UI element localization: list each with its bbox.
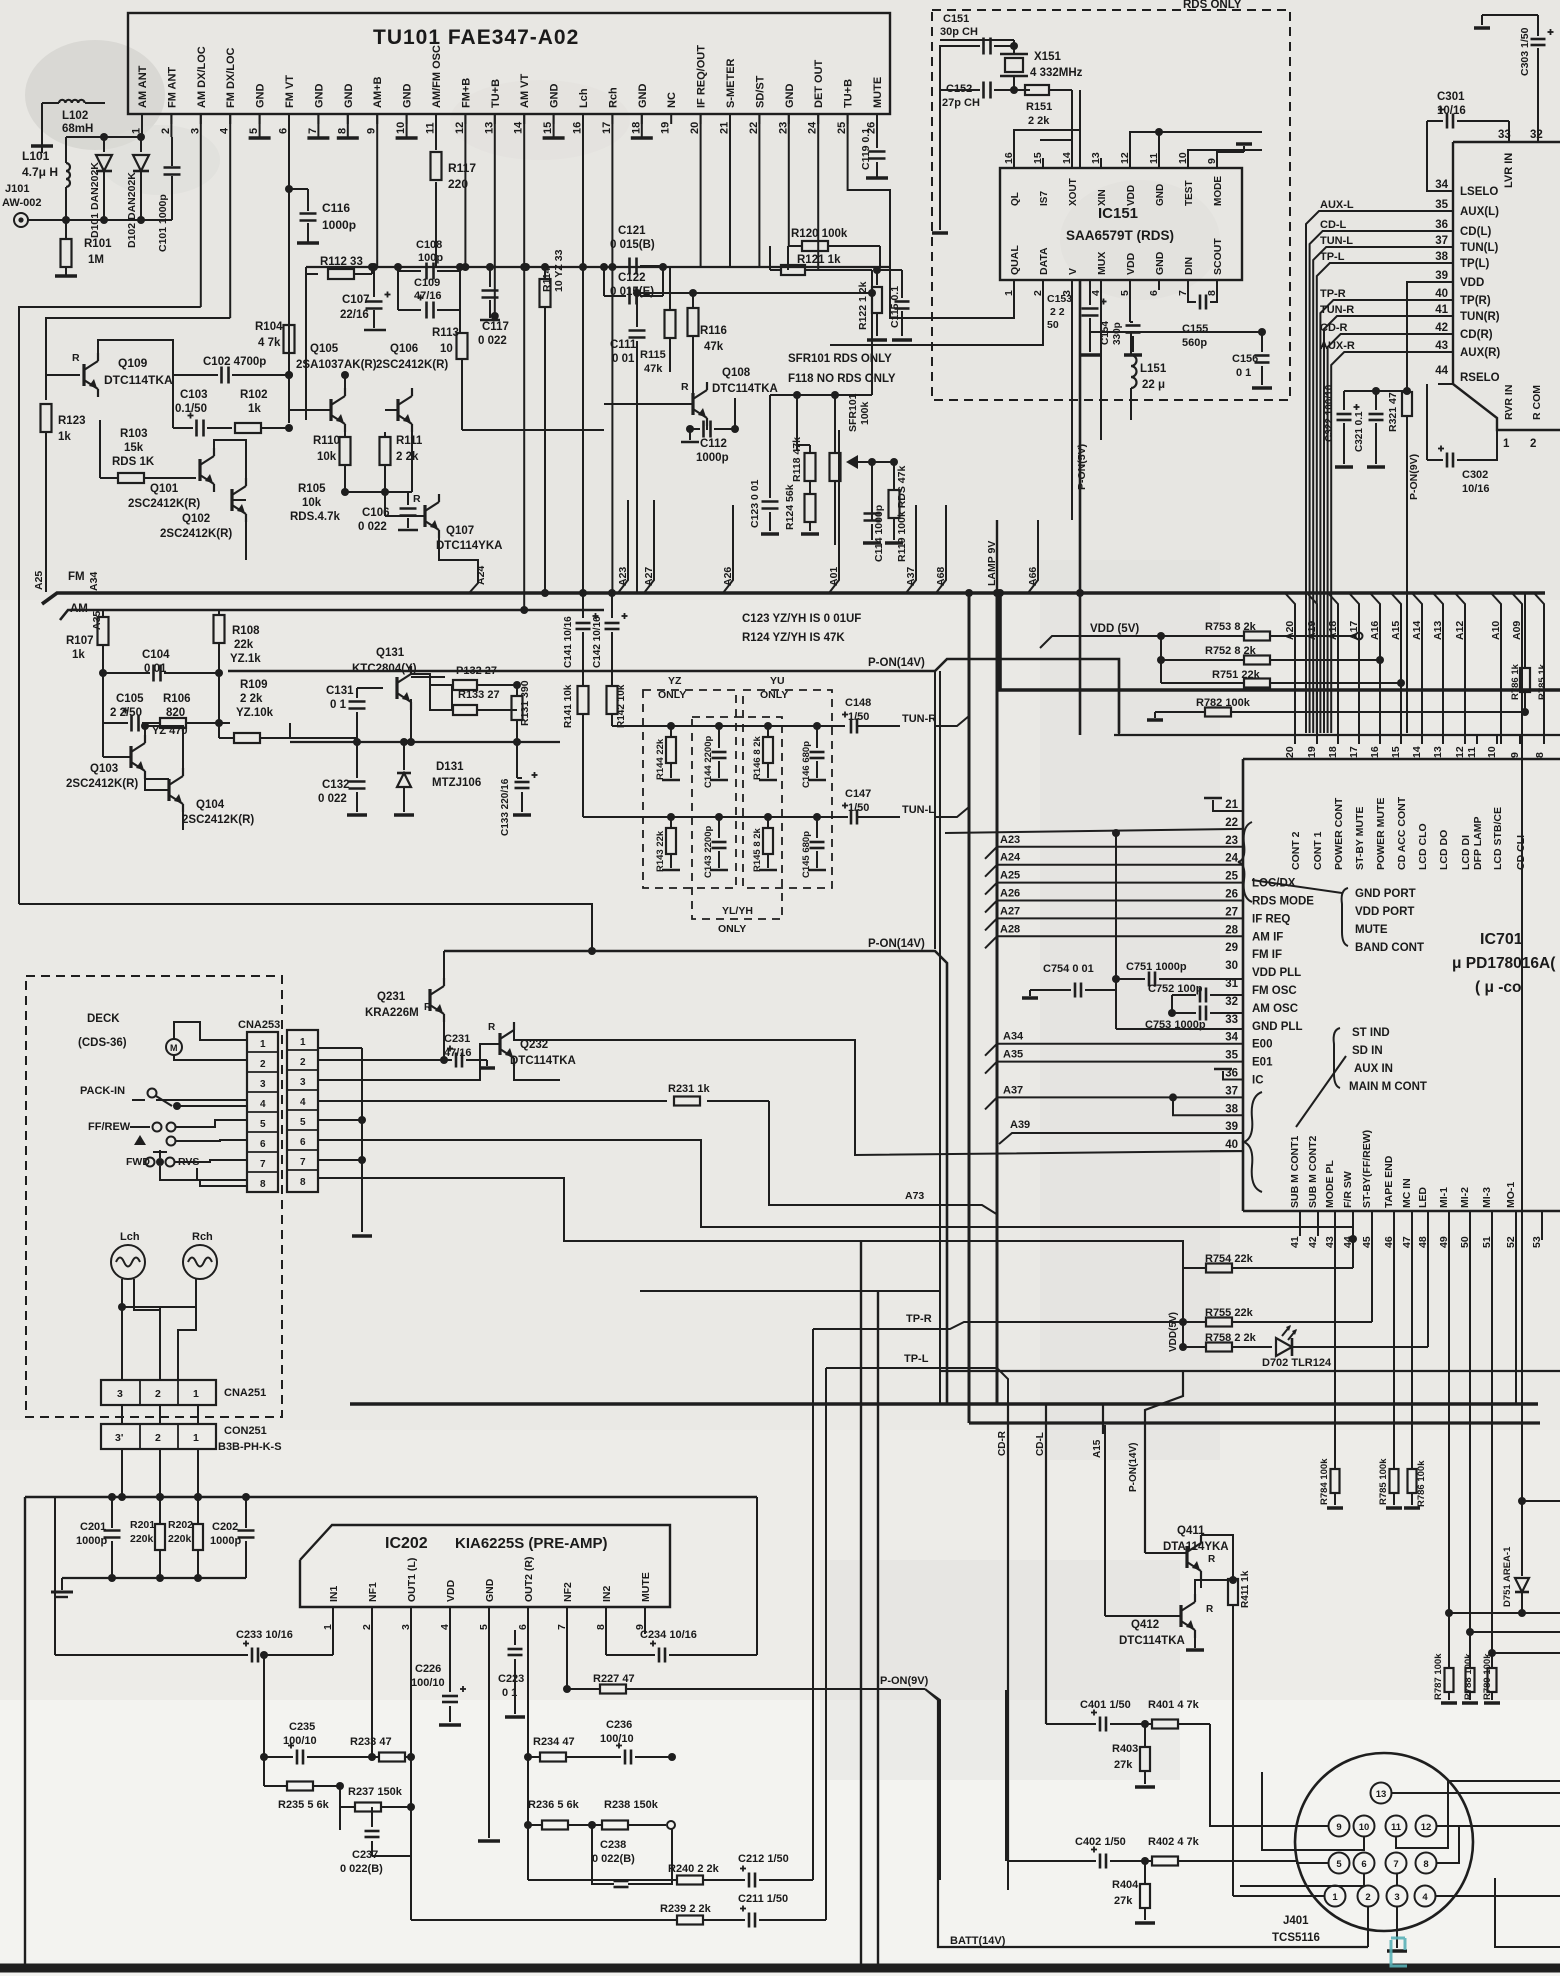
- svg-text:J401: J401: [1283, 1915, 1309, 1927]
- svg-text:DTC114TKA: DTC114TKA: [510, 1055, 576, 1067]
- capacitor C117 0.022: [489, 267, 491, 287]
- wire Q411 base: [1145, 1552, 1187, 1554]
- wire lamp join: [122, 1306, 196, 1308]
- svg-text:FM VT: FM VT: [284, 75, 296, 108]
- wire Q109 collector: [98, 340, 173, 375]
- transistor Q108 DTC114TKA: [691, 393, 694, 415]
- connector CNA251: [101, 1380, 216, 1405]
- wire RVS row: [160, 1166, 247, 1186]
- wire second vertical: [46, 318, 230, 400]
- svg-text:D102 DAN202K: D102 DAN202K: [126, 172, 138, 248]
- svg-text:C115 0.1: C115 0.1: [889, 286, 901, 328]
- wire Q231 collector: [443, 951, 445, 986]
- IC701 pin36 stub: [1223, 1071, 1243, 1080]
- svg-text:LCD CLO: LCD CLO: [1417, 823, 1429, 870]
- switch FF/REW: [130, 1126, 150, 1128]
- wire pin row horizontal: [1114, 734, 1560, 736]
- svg-text:SFR101 RDS ONLY: SFR101 RDS ONLY: [788, 353, 892, 365]
- svg-text:C301: C301: [1437, 91, 1465, 103]
- wire pin51 drop MI-3: [1491, 1228, 1493, 1653]
- svg-text:RDS.4.7k: RDS.4.7k: [290, 511, 340, 523]
- svg-text:PACK-IN: PACK-IN: [80, 1085, 125, 1097]
- svg-text:2 2k: 2 2k: [396, 451, 419, 463]
- wire pin40: [1210, 1150, 1243, 1152]
- svg-text:R: R: [1208, 1554, 1216, 1565]
- transistor Q106 2SC2412K(R): [396, 399, 399, 421]
- svg-text:Q103: Q103: [90, 763, 118, 775]
- svg-text:E01: E01: [1252, 1057, 1273, 1069]
- svg-text:R108: R108: [232, 625, 260, 637]
- svg-text:KTC2804(Y): KTC2804(Y): [352, 663, 417, 675]
- wire J401 pin2: [1367, 1907, 1369, 1948]
- wire deck row4 long: [318, 1100, 667, 1102]
- wire trunk x861: [860, 1241, 862, 1964]
- wire Q108 base: [604, 403, 693, 405]
- svg-text:C101 1000p: C101 1000p: [157, 194, 169, 252]
- svg-text:10: 10: [395, 122, 407, 134]
- svg-text:1: 1: [193, 1432, 199, 1444]
- svg-text:4 7k: 4 7k: [258, 337, 281, 349]
- svg-text:FM+B: FM+B: [460, 78, 472, 108]
- svg-text:R240 2 2k: R240 2 2k: [668, 1863, 720, 1875]
- wire Q102 emitter down: [245, 522, 247, 560]
- svg-text:12: 12: [1454, 746, 1466, 758]
- wire middle lamp pin2: [159, 1330, 161, 1380]
- svg-text:ONLY: ONLY: [718, 923, 746, 935]
- wire rail 1497: [25, 1496, 757, 1498]
- svg-text:0 1: 0 1: [1236, 367, 1251, 379]
- IC701 pin21 stub: [1213, 800, 1243, 811]
- svg-text:DTC114TKA: DTC114TKA: [712, 383, 778, 395]
- svg-text:GND: GND: [1154, 251, 1166, 275]
- svg-text:SAA6579T (RDS): SAA6579T (RDS): [1066, 228, 1174, 243]
- svg-text:(CDS-36): (CDS-36): [78, 1037, 127, 1049]
- wire pin49 drop MI-1: [1448, 1228, 1450, 1613]
- svg-text:21: 21: [719, 122, 731, 134]
- svg-text:YL/YH: YL/YH: [722, 905, 753, 917]
- svg-text:R141 10k: R141 10k: [563, 684, 574, 728]
- svg-text:YU: YU: [770, 675, 785, 687]
- wire diode bottoms: [103, 195, 105, 220]
- resistor R117 220: [431, 152, 442, 180]
- svg-text:10: 10: [1359, 1822, 1370, 1833]
- svg-text:19: 19: [1306, 746, 1318, 758]
- svg-text:P-ON(14V): P-ON(14V): [868, 657, 925, 669]
- svg-text:24: 24: [807, 121, 819, 134]
- wire pin2 down: [371, 1634, 373, 1757]
- svg-text:0 015(B): 0 015(B): [610, 239, 655, 251]
- wire deck row7 stub: [318, 1159, 362, 1161]
- svg-text:11: 11: [1466, 747, 1478, 758]
- J401 pin 2: [1358, 1886, 1379, 1907]
- svg-text:17: 17: [1348, 746, 1360, 758]
- svg-text:MUX: MUX: [1096, 252, 1108, 275]
- svg-text:A35: A35: [1003, 1049, 1023, 1061]
- svg-text:L102: L102: [62, 110, 88, 122]
- svg-text:2 2: 2 2: [1050, 306, 1065, 318]
- wire long horizontal node row: [306, 266, 890, 268]
- wire TUN-L row: [583, 816, 845, 818]
- wire out1 down: [410, 1807, 412, 1920]
- svg-text:22: 22: [748, 122, 760, 134]
- svg-text:OUT1 (L): OUT1 (L): [406, 1558, 418, 1602]
- svg-text:C119 0.1: C119 0.1: [860, 128, 872, 170]
- svg-text:A15: A15: [1092, 1439, 1103, 1458]
- svg-text:37: 37: [1225, 1085, 1238, 1097]
- J401 pin 13: [1371, 1783, 1392, 1804]
- svg-text:C141 10/16: C141 10/16: [563, 616, 574, 668]
- wire pin45 drop: [1371, 1228, 1373, 1322]
- svg-text:CNA251: CNA251: [224, 1387, 266, 1399]
- wire Q412 base: [1105, 1615, 1181, 1617]
- svg-text:TP-R: TP-R: [1320, 288, 1346, 300]
- svg-text:39: 39: [1435, 270, 1448, 282]
- svg-text:0 01: 0 01: [612, 353, 635, 365]
- svg-text:11: 11: [1391, 1822, 1402, 1833]
- svg-text:R402 4 7k: R402 4 7k: [1148, 1836, 1200, 1848]
- svg-text:MUTE: MUTE: [872, 77, 884, 108]
- svg-text:C302: C302: [1462, 469, 1488, 481]
- wire Rch down: [178, 1279, 196, 1380]
- svg-text:18: 18: [630, 122, 642, 134]
- svg-text:39: 39: [1225, 1121, 1238, 1133]
- resistor R101 1M: [65, 220, 67, 240]
- wire P-ON14 to pin row: [1118, 659, 1120, 735]
- svg-text:A24: A24: [1000, 852, 1021, 864]
- svg-text:R234 47: R234 47: [533, 1736, 575, 1748]
- svg-text:42: 42: [1307, 1236, 1319, 1248]
- svg-text:35: 35: [1225, 1050, 1238, 1062]
- CNA253 row 7: [247, 1151, 278, 1153]
- transistor Q103 2SC2412K(R): [129, 746, 132, 768]
- IC IC151 SAA6579T (RDS): [1000, 168, 1242, 280]
- svg-text:R227 47: R227 47: [593, 1673, 635, 1685]
- connector CN301 left edge: [1452, 142, 1454, 384]
- svg-text:C211 1/50: C211 1/50: [738, 1893, 788, 1905]
- svg-text:R784 100k: R784 100k: [1319, 1458, 1330, 1505]
- svg-text:A26: A26: [1000, 888, 1020, 900]
- svg-text:LVR IN: LVR IN: [1503, 153, 1515, 188]
- svg-text:6: 6: [300, 1137, 306, 1148]
- long wire 1404: [350, 1402, 1538, 1405]
- wire pin25 drop to RDS box: [848, 114, 1014, 318]
- svg-text:C201: C201: [80, 1521, 106, 1533]
- wire emitter join: [345, 491, 412, 493]
- crystal X151 4.332MHz: [1005, 58, 1023, 72]
- wire x1522 node: [1518, 1497, 1526, 1505]
- tuner module TU101 FAE347-A02: [128, 13, 890, 114]
- svg-text:6: 6: [1361, 1859, 1366, 1870]
- wire IC151 left pins up: [1014, 90, 1080, 168]
- svg-text:13: 13: [483, 122, 495, 134]
- svg-text:R321 47: R321 47: [1387, 392, 1399, 432]
- svg-text:C212 1/50: C212 1/50: [738, 1853, 789, 1865]
- svg-text:47/16: 47/16: [414, 290, 442, 302]
- svg-text:TU101 FAE347-A02: TU101 FAE347-A02: [373, 26, 579, 49]
- wire trunk x1000 thick L: [1000, 593, 1560, 690]
- wire pin41 drop: [1299, 1228, 1301, 1236]
- svg-text:RDS MODE: RDS MODE: [1252, 896, 1314, 908]
- svg-text:16: 16: [1369, 746, 1381, 758]
- J401 pin 1: [1325, 1886, 1346, 1907]
- svg-text:Q231: Q231: [377, 991, 406, 1003]
- svg-text:L101: L101: [22, 149, 50, 163]
- svg-text:SD IN: SD IN: [1352, 1045, 1383, 1057]
- svg-text:R120 100k: R120 100k: [791, 228, 848, 240]
- svg-text:R151: R151: [1026, 101, 1052, 113]
- svg-text:GND: GND: [484, 1578, 496, 1602]
- svg-text:POWER CONT: POWER CONT: [1333, 797, 1345, 870]
- wire VDD pin39: [1407, 282, 1453, 392]
- svg-text:A25: A25: [1000, 870, 1020, 882]
- svg-text:A34: A34: [1003, 1031, 1024, 1043]
- svg-text:P-ON(5V): P-ON(5V): [1076, 444, 1088, 490]
- ground pin15: [553, 114, 555, 138]
- wire FF/REW row: [190, 1120, 247, 1127]
- svg-text:27: 27: [1225, 906, 1238, 918]
- wire 1291 feeder: [640, 1290, 940, 1292]
- wire QUAL down-left: [1013, 280, 1015, 318]
- svg-text:A28: A28: [1000, 923, 1020, 935]
- connector CNA253 right half: [287, 1030, 318, 1192]
- J401 pin 9: [1329, 1816, 1350, 1837]
- svg-text:( μ -co: ( μ -co: [1475, 979, 1522, 996]
- wire 904 horizontal to P-ON: [19, 904, 592, 951]
- svg-text:R785 100k: R785 100k: [1378, 1458, 1389, 1505]
- svg-text:A23: A23: [1000, 834, 1020, 846]
- svg-text:35: 35: [1435, 199, 1448, 211]
- svg-text:MI-3: MI-3: [1481, 1187, 1493, 1208]
- svg-text:20: 20: [689, 122, 701, 134]
- bottom rail: [0, 1964, 1560, 1973]
- svg-text:IC: IC: [1252, 1075, 1264, 1087]
- svg-text:GND: GND: [637, 84, 649, 109]
- svg-text:C111: C111: [610, 339, 637, 351]
- wire pin12 drop FM+B: [464, 114, 466, 267]
- transistor Q105 2SA1037AK(R): [329, 399, 332, 421]
- wire C156 top: [1131, 331, 1262, 333]
- wire Q411 collector: [1200, 1579, 1202, 1588]
- svg-text:2SC2412K(R): 2SC2412K(R): [376, 359, 448, 371]
- svg-text:C754 0 01: C754 0 01: [1043, 963, 1094, 975]
- wire Q104 emitter: [182, 812, 184, 830]
- svg-text:C322 100/10: C322 100/10: [1324, 384, 1335, 442]
- transistor Q109 DTC114TKA: [46, 374, 80, 376]
- wire pin47 drop MC IN: [1411, 1228, 1413, 1469]
- wire BATT 14V: [938, 1700, 1368, 1947]
- svg-text:C155: C155: [1182, 323, 1208, 335]
- svg-text:2SC2412K(R): 2SC2412K(R): [182, 814, 254, 826]
- svg-text:13: 13: [1376, 1789, 1387, 1800]
- wire Q105 collector: [344, 375, 346, 388]
- svg-text:IN2: IN2: [601, 1586, 613, 1603]
- long wire 1423: [969, 1421, 1540, 1424]
- svg-text:MI-2: MI-2: [1459, 1187, 1471, 1208]
- wire R112 left leg: [305, 274, 307, 420]
- svg-text:ONLY: ONLY: [658, 689, 686, 701]
- wire DATA out left: [830, 280, 1043, 345]
- svg-text:1k: 1k: [72, 649, 85, 661]
- svg-text:10k: 10k: [317, 451, 337, 463]
- svg-text:R106: R106: [163, 693, 191, 705]
- capacitor C112 1000p: [706, 418, 708, 430]
- svg-text:X151: X151: [1034, 51, 1061, 63]
- wire TP-R vertical to C212: [812, 1329, 814, 1880]
- wire Q107 emitter to bus A24: [439, 538, 478, 592]
- wire J401 pin10: [1262, 1772, 1364, 1850]
- svg-text:ONLY: ONLY: [760, 689, 788, 701]
- J401 pin 8: [1416, 1853, 1437, 1874]
- svg-text:FM OSC: FM OSC: [1252, 985, 1297, 997]
- svg-text:30: 30: [1225, 960, 1238, 972]
- svg-text:D101 DAN202K: D101 DAN202K: [89, 162, 101, 238]
- svg-text:C131: C131: [326, 685, 354, 697]
- svg-text:ST-BY(FF/REW): ST-BY(FF/REW): [1361, 1130, 1373, 1208]
- wire pin1 drop: [141, 114, 143, 137]
- svg-text:10k: 10k: [302, 497, 322, 509]
- svg-text:KRA226M: KRA226M: [365, 1007, 419, 1019]
- svg-text:38: 38: [1435, 251, 1448, 263]
- wire TUN-R row: [612, 725, 845, 727]
- svg-text:5: 5: [300, 1117, 306, 1128]
- wire TP-L row: [826, 1368, 1008, 1404]
- CNA253 row 4: [247, 1091, 278, 1093]
- svg-text:CNA253: CNA253: [238, 1019, 280, 1031]
- wire deck row5 stub: [318, 1119, 362, 1121]
- wire J401 pin11: [1396, 1781, 1560, 1848]
- svg-text:ST IND: ST IND: [1352, 1027, 1390, 1039]
- wire J401 pin9 row: [1296, 1825, 1329, 1827]
- svg-text:P-ON(9V): P-ON(9V): [1408, 454, 1420, 500]
- diode D102 DAN202K: [140, 137, 142, 152]
- IC IC202 KIA6225S PRE-AMP: [300, 1525, 670, 1607]
- svg-text:CONT 2: CONT 2: [1290, 831, 1302, 870]
- svg-text:7: 7: [300, 1157, 306, 1168]
- svg-text:1k: 1k: [248, 403, 261, 415]
- svg-text:C402 1/50: C402 1/50: [1075, 1836, 1126, 1848]
- svg-text:LCD DI: LCD DI: [1460, 835, 1472, 870]
- svg-text:R133 27: R133 27: [458, 689, 500, 701]
- svg-text:R236 5 6k: R236 5 6k: [528, 1799, 580, 1811]
- brace pins 22-24: [1238, 822, 1252, 902]
- svg-text:AM/FM OSC: AM/FM OSC: [431, 45, 443, 108]
- wire sfr rail: [770, 394, 872, 396]
- svg-text:R201: R201: [130, 1519, 155, 1531]
- wire pin11 drop: [435, 114, 437, 150]
- svg-text:L151: L151: [1140, 363, 1167, 375]
- svg-text:TP-L: TP-L: [1320, 251, 1345, 263]
- svg-text:C153: C153: [1047, 293, 1072, 305]
- wire Q411 emitter right: [1201, 1535, 1233, 1580]
- svg-text:220k: 220k: [130, 1533, 154, 1545]
- svg-text:AUX(R): AUX(R): [1460, 347, 1500, 359]
- svg-text:FM IF: FM IF: [1252, 949, 1282, 961]
- svg-text:6: 6: [1148, 290, 1160, 296]
- resistor R123 1k: [41, 404, 52, 432]
- wire motor loop: [174, 1022, 247, 1040]
- wire J401 pin13: [1392, 1792, 1560, 1794]
- svg-text:GND: GND: [549, 84, 561, 109]
- svg-text:R144 22k: R144 22k: [655, 738, 666, 780]
- ground R782: [1155, 711, 1168, 713]
- svg-text:15: 15: [542, 122, 554, 134]
- wire LAMP vertical: [996, 520, 998, 593]
- svg-text:25: 25: [836, 122, 848, 134]
- svg-text:MODE: MODE: [1213, 176, 1224, 206]
- svg-text:DET OUT: DET OUT: [813, 59, 825, 108]
- svg-text:C148: C148: [845, 697, 871, 709]
- svg-text:17: 17: [601, 122, 613, 134]
- svg-text:100p: 100p: [418, 252, 443, 264]
- svg-text:GND PLL: GND PLL: [1252, 1021, 1302, 1033]
- wire trunk x997: [996, 593, 999, 1404]
- ground left of L102: [41, 103, 43, 146]
- wire pin46 drop TAPE END: [1393, 1228, 1395, 1469]
- svg-text:AM IF: AM IF: [1252, 931, 1283, 943]
- svg-text:LCD STB/CE: LCD STB/CE: [1492, 807, 1504, 870]
- ground C152: [939, 90, 941, 230]
- svg-text:AM ANT: AM ANT: [137, 65, 149, 108]
- wire top right corner: [1482, 14, 1538, 16]
- svg-text:C123 YZ/YH IS 0 01UF: C123 YZ/YH IS 0 01UF: [742, 613, 861, 625]
- diagonal to ST list: [1296, 1056, 1346, 1127]
- capacitor C101 1000p: [171, 137, 173, 166]
- wire pin52 drop MO-1: [1515, 1228, 1517, 1404]
- svg-text:IF REQ/OUT: IF REQ/OUT: [696, 45, 708, 108]
- wire V down: [1071, 280, 1073, 520]
- svg-text:C156: C156: [1232, 353, 1258, 365]
- wire TP-L vertical to C211: [825, 1368, 827, 1920]
- svg-text:Q104: Q104: [196, 799, 225, 811]
- svg-text:1k: 1k: [58, 431, 71, 443]
- svg-text:C231: C231: [444, 1033, 470, 1045]
- svg-text:NF2: NF2: [562, 1582, 574, 1602]
- svg-text:4: 4: [219, 127, 231, 134]
- svg-text:22/16: 22/16: [340, 309, 369, 321]
- svg-text:MI-1: MI-1: [1438, 1187, 1450, 1208]
- svg-text:CD-R: CD-R: [1320, 322, 1348, 334]
- svg-text:LSELO: LSELO: [1460, 186, 1498, 198]
- svg-text:Q107: Q107: [446, 525, 474, 537]
- wire J401 pin6: [1240, 1874, 1364, 1887]
- svg-text:1000p: 1000p: [322, 218, 356, 232]
- wire x1116 vertical: [1115, 833, 1117, 1029]
- svg-text:C142 10/16: C142 10/16: [592, 616, 603, 668]
- svg-text:DTC114TKA: DTC114TKA: [104, 373, 173, 387]
- svg-text:AUX(L): AUX(L): [1460, 206, 1499, 218]
- svg-text:2 2k: 2 2k: [1028, 115, 1050, 127]
- svg-text:TUN-L: TUN-L: [1320, 235, 1353, 247]
- svg-text:R109: R109: [240, 679, 268, 691]
- svg-text:2: 2: [155, 1388, 161, 1400]
- motor M: [166, 1039, 182, 1055]
- svg-text:A34: A34: [88, 572, 100, 591]
- svg-text:GND: GND: [784, 84, 796, 109]
- wire C301 loop to pin34: [1427, 121, 1453, 191]
- svg-text:27k: 27k: [1114, 1759, 1133, 1771]
- svg-text:27p CH: 27p CH: [942, 97, 980, 109]
- svg-text:C238: C238: [600, 1839, 626, 1851]
- svg-text:22 μ: 22 μ: [1142, 379, 1165, 391]
- transistor Q102 2SC2412K(R): [230, 489, 233, 511]
- wire VDD TEST MODE top: [1130, 132, 1262, 168]
- svg-text:A39: A39: [1010, 1119, 1030, 1131]
- wires CNA251 to CON251: [121, 1405, 123, 1424]
- svg-text:560p: 560p: [1182, 337, 1207, 349]
- svg-text:TP-R: TP-R: [906, 1313, 932, 1325]
- svg-text:VDD: VDD: [1125, 252, 1137, 275]
- antenna jack J101 AW-002: [14, 213, 28, 227]
